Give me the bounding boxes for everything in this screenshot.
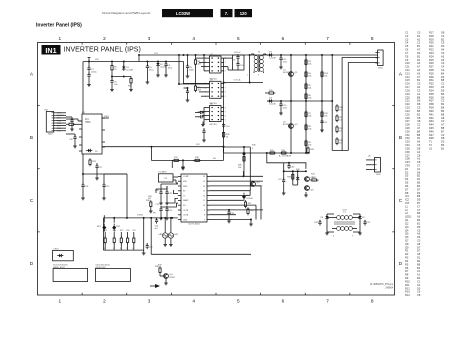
svg-text:R21: R21 [248,203,253,205]
svg-text:Q2: Q2 [405,221,409,225]
svg-text:R24: R24 [113,230,116,232]
svg-text:C2: C2 [441,34,445,38]
svg-text:R19: R19 [429,37,434,41]
svg-text:B4: B4 [417,184,421,188]
svg-text:A5: A5 [441,58,445,62]
IC1 pin stubs [79,118,105,151]
svg-text:C17: C17 [405,85,410,89]
resistor R31 [268,150,276,154]
label U2 part [210,79,217,81]
svg-text:Q5: Q5 [405,232,409,236]
capacitor C12 [279,54,287,62]
svg-text:C22: C22 [405,102,410,106]
resistor R36 [223,131,231,139]
wire T1 leads [327,214,360,232]
svg-text:D8: D8 [405,191,409,195]
ground (C14) [320,125,324,132]
net label (rail) [137,215,144,217]
capacitor C31 [195,111,204,114]
diode D3 [267,52,273,57]
svg-text:D2: D2 [417,51,421,55]
svg-text:B2: B2 [417,174,421,178]
svg-text:D3: D3 [405,174,409,178]
svg-text:C16: C16 [69,139,74,141]
svg-text:5: 5 [237,299,240,304]
svg-text:B3: B3 [417,211,421,215]
svg-text:15: 15 [203,181,205,183]
svg-text:R17: R17 [429,31,434,35]
resistor ladder labels [308,61,344,146]
svg-text:C30: C30 [291,167,296,169]
svg-text:A7: A7 [417,65,421,69]
svg-text:B4: B4 [417,218,421,222]
svg-text:10k: 10k [339,142,342,144]
svg-text:R40: R40 [252,145,257,147]
svg-text:10k: 10k [308,115,311,117]
resistor R35 [287,173,294,181]
capacitor C18 [81,173,89,189]
svg-text:6: 6 [282,36,285,41]
grid coordinate labels [30,36,403,303]
ground (C6) [186,95,190,102]
wire resistor bank bottom rail [103,249,143,251]
capacitor C27 [278,176,285,184]
svg-text:OUTB: OUTB [183,210,189,212]
wire IC2 left feeds [156,184,178,207]
svg-text:D4: D4 [405,177,409,181]
svg-text:R22: R22 [250,210,255,212]
svg-text:D1: D1 [405,167,409,171]
resistor R4a [128,77,132,88]
svg-text:R44: R44 [429,123,434,127]
svg-text:A: A [399,72,403,77]
svg-text:D6: D6 [405,184,409,188]
svg-text:L3: L3 [405,211,408,215]
svg-text:C3: C3 [417,239,421,243]
svg-text:C4: C4 [441,65,445,69]
ground (C15) [70,124,74,131]
svg-text:R41: R41 [196,144,201,146]
svg-text:C3: C3 [417,82,421,86]
svg-text:B2: B2 [417,54,421,58]
svg-text:B1: B1 [441,146,445,150]
header box 7. [221,9,233,17]
label driver [296,169,316,176]
svg-text:Q1: Q1 [295,72,299,74]
svg-text:C24: C24 [405,109,410,113]
svg-text:R19: R19 [92,161,97,163]
svg-text:B6: B6 [417,129,421,133]
svg-text:1k: 1k [226,136,228,138]
control IC2 (PWM) [178,174,210,226]
wire rail left drop [102,218,104,250]
svg-text:R7: R7 [405,269,409,273]
svg-text:D6: D6 [417,235,421,239]
svg-text:C4: C4 [405,41,409,45]
wire U4 left stubs [200,108,207,125]
svg-text:R46: R46 [429,129,434,133]
label D6 type [246,198,254,200]
svg-text:Q2: Q2 [295,124,299,126]
svg-text:BC847: BC847 [257,186,264,188]
title tag IN1 [42,45,61,55]
capacitor C30 [287,162,295,169]
ground (C4) [164,68,168,77]
svg-text:1k: 1k [126,248,128,250]
svg-text:C5: C5 [417,228,421,232]
svg-text:C8: C8 [417,116,421,120]
svg-text:R25: R25 [120,230,123,232]
wire rail drop [223,146,225,153]
label sense [196,144,201,146]
svg-text:C33: C33 [226,126,231,128]
driver block U2 [207,54,224,73]
svg-text:100n: 100n [283,107,287,109]
svg-text:VFB: VFB [183,181,187,183]
svg-text:C37: C37 [405,153,410,157]
svg-text:IRF7105: IRF7105 [210,124,217,126]
svg-text:Q3: Q3 [405,225,409,229]
diode D7 [292,175,300,181]
svg-text:R2: R2 [405,252,409,256]
svg-text:8: 8 [204,215,205,217]
svg-text:8: 8 [371,299,374,304]
svg-text:A1: A1 [417,273,421,277]
svg-text:D5: D5 [405,181,409,185]
svg-text:10k: 10k [324,115,327,117]
placement box 2 [95,269,130,282]
svg-text:C7: C7 [417,208,421,212]
svg-text:C10: C10 [240,65,243,67]
svg-text:C3: C3 [417,31,421,35]
ground (LA2) [169,238,173,246]
capacitor C21 [165,186,173,196]
svg-text:IC3: IC3 [405,201,410,205]
svg-text:LL4148: LL4148 [126,69,134,71]
svg-text:R14: R14 [405,293,410,297]
svg-text:LL4148: LL4148 [246,198,254,200]
ground (driver) [304,192,308,197]
svg-text:IRF7105: IRF7105 [210,103,217,105]
label T2 pins [247,75,259,77]
svg-text:D8: D8 [321,217,324,219]
connector CN1 [46,112,56,136]
svg-text:R26: R26 [429,61,434,65]
svg-text:A5: A5 [441,54,445,58]
capacitor C14 [320,118,328,125]
page subtitle [36,23,82,29]
svg-text:C35: C35 [405,146,410,150]
svg-text:B8: B8 [417,95,421,99]
svg-text:OUTA: OUTA [183,214,189,217]
svg-text:1M: 1M [148,198,151,200]
capacitor C1 (electrolytic) [87,58,96,79]
svg-text:D1: D1 [417,136,421,140]
wire bus riser [138,55,140,62]
svg-text:R27: R27 [429,65,434,69]
placement box 1 [53,269,88,282]
capacitor C19 [102,174,127,189]
ground (C19) [102,189,106,200]
svg-text:C6: C6 [417,143,421,147]
capacitor C29 [363,220,371,226]
label fb [213,158,216,160]
capacitor C32 [195,115,204,118]
svg-text:LL4148: LL4148 [160,66,168,68]
svg-text:LA: LA [368,155,371,158]
IC1 regulator box [82,114,102,154]
svg-text:C14: C14 [405,75,410,79]
svg-text:6: 6 [282,299,285,304]
svg-text:9: 9 [352,236,353,238]
svg-text:7: 7 [204,219,205,221]
capacitor C26 [155,218,160,230]
ground (D9) [358,220,362,235]
ground (Q4) [164,281,168,285]
svg-text:7: 7 [326,36,329,41]
transistor Q6 [304,186,314,192]
svg-text:C13: C13 [405,71,410,75]
page reference arrow [150,284,160,288]
lamp LA1 [159,217,168,238]
capacitor C25 [146,243,154,249]
resistor R1 [194,55,201,66]
svg-text:R35: R35 [429,92,434,96]
svg-text:B8: B8 [417,133,421,137]
svg-text:6: 6 [225,92,226,94]
svg-text:C16: C16 [405,82,410,86]
svg-text:B1: B1 [417,44,421,48]
ground (C16) [73,141,77,148]
wire vertical net V1 [290,55,292,153]
lamp LA2 [168,217,179,238]
svg-text:C1: C1 [417,41,421,45]
svg-text:D5: D5 [417,198,421,202]
part number label 1 [53,265,68,269]
svg-text:14: 14 [203,186,205,188]
svg-text:C8: C8 [417,153,421,157]
svg-text:D1: D1 [417,256,421,260]
svg-text:C2: C2 [417,123,421,127]
svg-text:LL4148: LL4148 [269,57,277,59]
svg-text:A7: A7 [417,48,421,52]
diode D3a [122,61,134,72]
wire lower horizontal link [83,173,127,175]
svg-text:A1: A1 [417,157,421,161]
label Q3 type [257,186,264,188]
svg-text:C5: C5 [405,44,409,48]
wire box out rail [224,79,263,83]
svg-text:R40: R40 [429,109,434,113]
resistor R19 [89,158,97,166]
diode D6 (diamond) [242,193,249,201]
svg-text:R25: R25 [429,58,434,62]
svg-text:BC847: BC847 [170,277,176,279]
svg-text:C15: C15 [405,78,410,82]
wire left vertical feed [82,62,84,115]
svg-text:R32: R32 [429,82,434,86]
svg-text:B2: B2 [417,112,421,116]
wire IC1 out rail [102,146,224,148]
svg-text:V-SNS: V-SNS [137,215,144,217]
svg-text:D3: D3 [417,286,421,290]
svg-text:1: 1 [59,36,62,41]
svg-text:1: 1 [59,299,62,304]
svg-text:1600: 1600 [48,134,54,136]
svg-text:C28: C28 [405,123,410,127]
transistor Q1 [288,72,298,77]
svg-text:C19: C19 [405,92,410,96]
svg-text:R11: R11 [405,283,410,287]
svg-text:B4: B4 [441,71,445,75]
svg-text:10k: 10k [308,87,311,89]
svg-text:C8 2n2: C8 2n2 [234,52,241,54]
resistor bank R23-R27 [104,232,135,250]
svg-text:10u: 10u [114,84,117,86]
svg-text:D6: D6 [441,95,445,99]
capacitor C16 [66,134,77,141]
svg-text:IC1: IC1 [82,112,86,114]
svg-text:CT: CT [183,195,186,197]
transformer T1 [332,210,357,231]
svg-text:D2: D2 [405,170,409,174]
svg-text:C3: C3 [441,61,445,65]
svg-text:16: 16 [203,176,205,178]
svg-text:R30: R30 [158,265,163,267]
svg-text:C3: C3 [441,51,445,55]
wire vertical net V2 [305,55,307,153]
svg-text:2SC5707: 2SC5707 [311,180,320,182]
wire ladder bottom rung [332,150,348,152]
oscillator block X1 [158,174,173,182]
svg-text:C8: C8 [417,160,421,164]
capacitor C24 [227,209,235,216]
svg-text:R21: R21 [429,44,434,48]
svg-text:A3: A3 [417,215,421,219]
svg-text:12: 12 [203,195,205,197]
svg-text:R26: R26 [126,230,129,232]
svg-text:B: B [399,135,402,140]
svg-text:Circuit Diagrams and PWB Layou: Circuit Diagrams and PWB Layouts [102,11,151,15]
svg-text:D8: D8 [417,102,421,106]
ground (D2) [156,67,160,77]
svg-text:D2: D2 [417,191,421,195]
wire X1 to IC2 [173,177,178,183]
ground (C12) [279,62,283,69]
svg-text:INVERTER PANEL (IPS): INVERTER PANEL (IPS) [64,47,141,54]
svg-text:10k: 10k [308,144,311,146]
svg-text:8: 8 [225,107,226,109]
svg-text:C1: C1 [441,82,445,86]
svg-text:C9: C9 [233,59,235,61]
junction dots on buses [138,54,333,102]
transistor Q3 [250,182,260,187]
svg-text:D5: D5 [95,151,98,153]
svg-text:C34: C34 [405,143,410,147]
svg-text:Q3: Q3 [257,182,261,184]
svg-text:CP2: CP2 [405,163,411,167]
capacitor C3 [146,61,154,72]
svg-text:T2: T2 [429,143,433,147]
varistor RV2 (diamond) [112,217,121,232]
svg-text:GND: GND [183,219,188,221]
svg-text:C2: C2 [441,119,445,123]
svg-text:2: 2 [103,36,106,41]
wire B+ drop [267,153,306,169]
wire main top bus [139,54,378,56]
resistor R33 [307,146,315,154]
wire IC2 output fanout [210,176,263,219]
svg-text:100n: 100n [283,61,287,63]
svg-text:1k: 1k [104,248,106,250]
wire IC1 lower vertical [82,154,84,174]
wire IC1 right stub [102,116,110,118]
svg-text:470u: 470u [149,69,153,71]
svg-text:BC847: BC847 [283,72,290,74]
capacitor C15 [66,117,74,124]
svg-text:D3: D3 [417,225,421,229]
svg-text:Q4: Q4 [405,228,409,232]
wire mid horizontal rail [267,100,332,102]
ground (C17) [95,170,99,180]
svg-text:A4: A4 [417,283,421,287]
svg-text:C19: C19 [106,186,111,188]
svg-text:B2: B2 [417,259,421,263]
wire vertical to rectifier rail [126,174,128,218]
svg-text:10k: 10k [339,109,342,111]
wire small rail [111,76,131,78]
svg-text:3: 3 [148,36,151,41]
svg-text:4: 4 [258,75,259,77]
ground (bank) [142,250,146,255]
svg-text:D3: D3 [441,44,445,48]
wire CN1 to IC1 [66,119,82,121]
capacitor C7 [202,128,205,135]
svg-text:VREF: VREF [104,116,110,118]
component cross-reference list [405,31,445,298]
svg-text:10: 10 [114,69,117,71]
svg-text:A7: A7 [417,126,421,130]
svg-text:C21: C21 [405,99,410,103]
header box 120 [235,9,253,17]
svg-text:BC857: BC857 [283,124,290,126]
part number label 2 [95,265,110,269]
svg-text:L1: L1 [405,204,408,208]
svg-text:10: 10 [203,205,205,207]
svg-text:10k: 10k [324,75,327,77]
wire Q4 link [160,274,166,281]
diode D5 (in IC1 area) [86,149,98,153]
svg-text:RV1: RV1 [97,226,102,228]
svg-text:9: 9 [204,210,205,212]
svg-text:B+ VOLTAGE: B+ VOLTAGE [279,155,292,158]
wire CN3 stubs [366,155,372,170]
svg-text:11: 11 [203,200,205,202]
capacitor C22 [159,206,162,213]
capacitor C9 (snubber) [233,54,240,61]
svg-text:B: B [30,135,33,140]
svg-text:C26: C26 [405,116,410,120]
svg-text:CL 96532075_079.eps: CL 96532075_079.eps [370,284,394,286]
wire lamp loop bottom rail [151,253,251,255]
svg-text:Q8: Q8 [405,242,409,246]
resistor R22 [247,207,255,215]
transistor Q4 [163,274,173,279]
resistor R18 [193,157,201,161]
svg-text:LED1: LED1 [54,248,60,250]
svg-text:IN1: IN1 [45,46,56,55]
svg-text:C8: C8 [405,54,409,58]
